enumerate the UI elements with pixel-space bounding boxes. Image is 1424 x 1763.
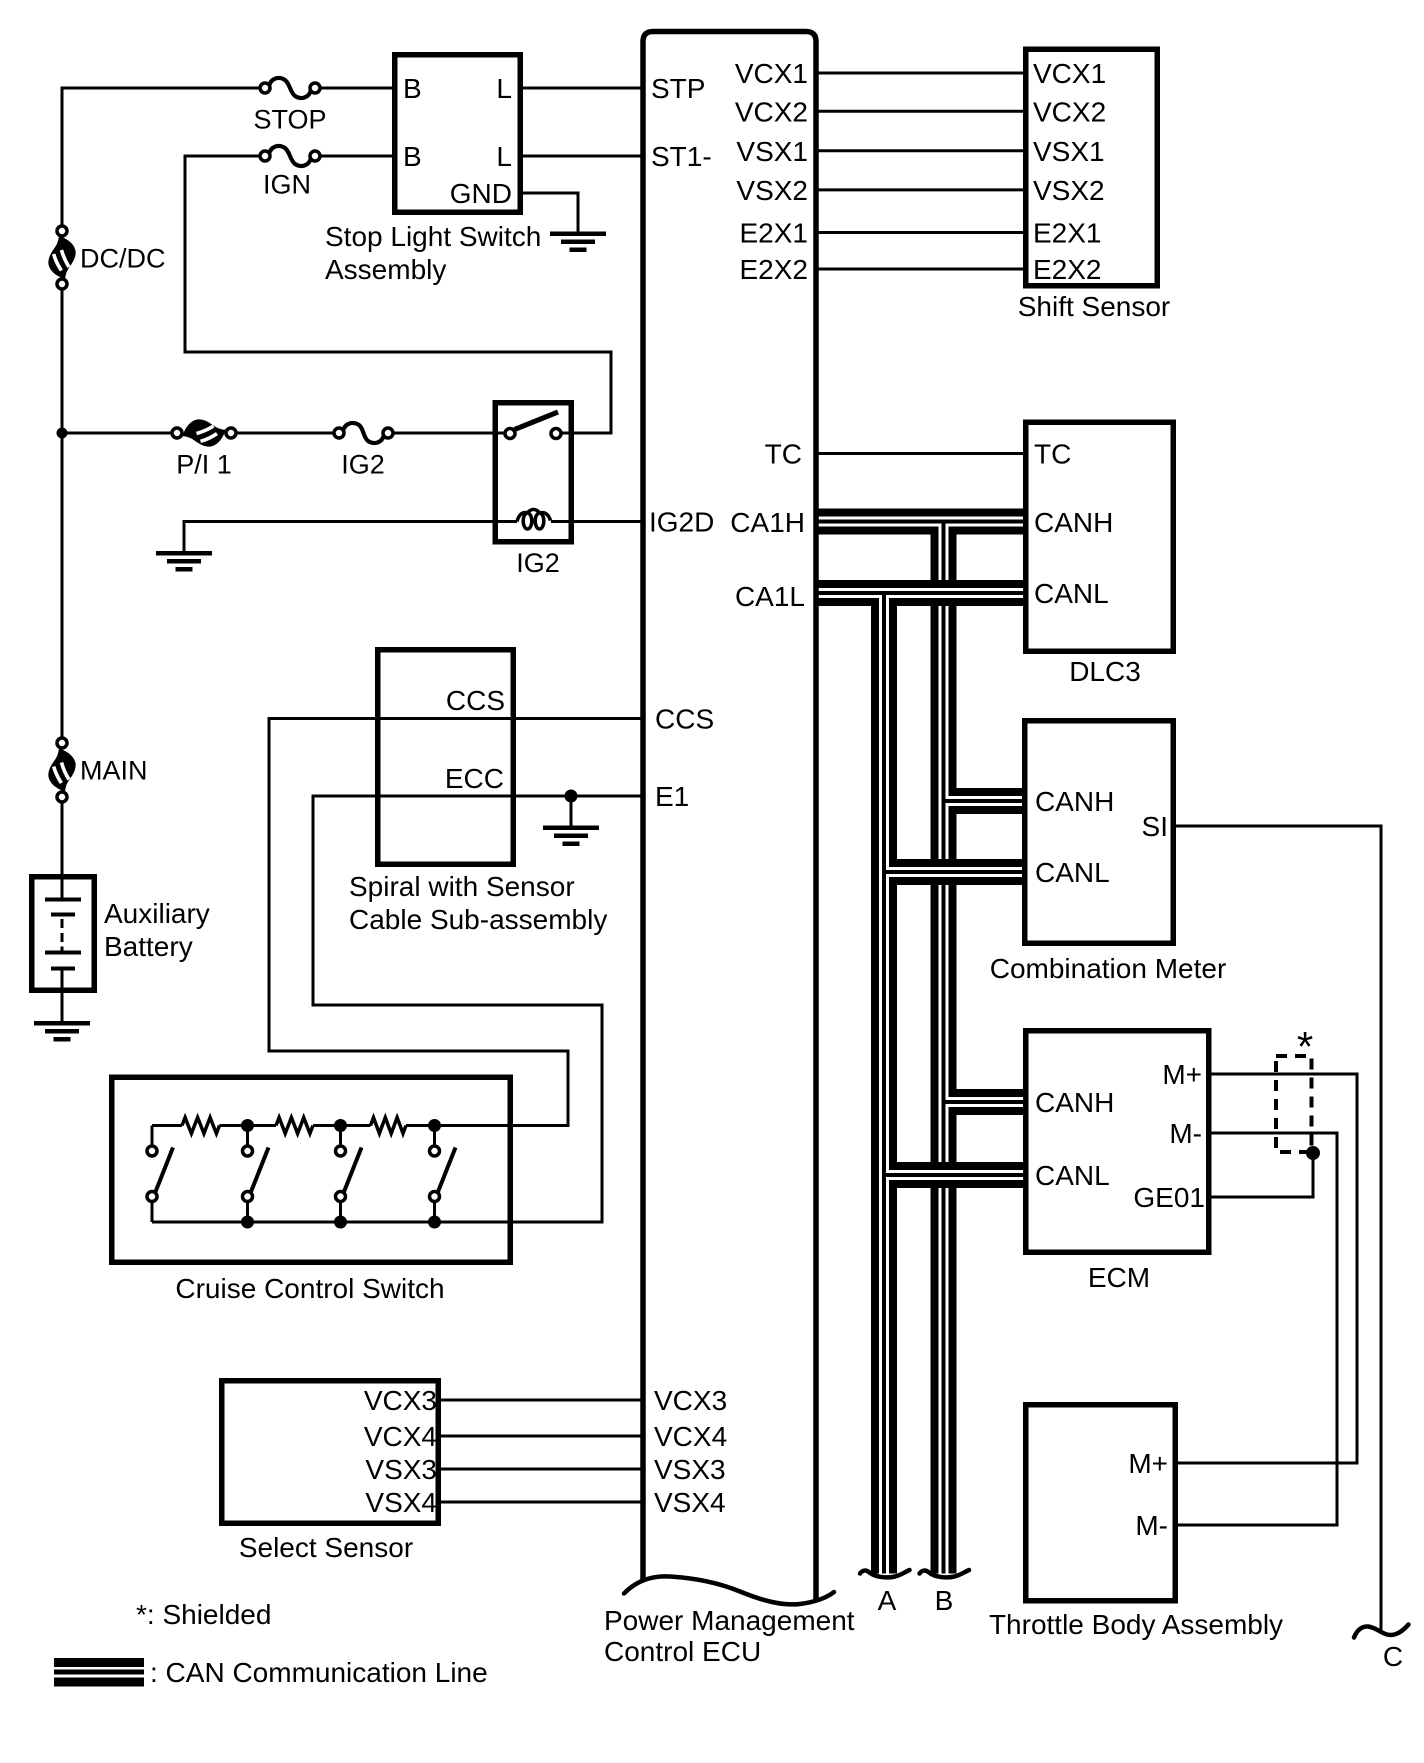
ECU bottom break wave xyxy=(624,1576,834,1604)
svg-text:TC: TC xyxy=(765,439,802,470)
fusible link MAIN xyxy=(48,749,75,792)
svg-text:E2X1: E2X1 xyxy=(740,218,809,249)
svg-text:IGN: IGN xyxy=(263,170,311,200)
wire: L to STP xyxy=(523,87,641,90)
junction node on battery bus xyxy=(57,428,68,439)
svg-text:E1: E1 xyxy=(655,781,689,812)
select sensor box xyxy=(222,1381,439,1524)
svg-text:Select Sensor: Select Sensor xyxy=(239,1532,413,1563)
relay IG2 box xyxy=(495,403,571,542)
svg-text:E2X2: E2X2 xyxy=(740,254,809,285)
svg-text:CANH: CANH xyxy=(1035,1087,1114,1118)
cruise control switch box xyxy=(112,1077,511,1262)
svg-text:VCX2: VCX2 xyxy=(735,97,808,128)
svg-text:VSX3: VSX3 xyxy=(365,1454,437,1485)
svg-text:B: B xyxy=(403,73,422,104)
top resistor row wire xyxy=(152,1124,182,1127)
svg-text:VSX2: VSX2 xyxy=(736,175,808,206)
ground (relay coil) xyxy=(156,551,212,556)
svg-text:C: C xyxy=(1383,1641,1403,1672)
switch 2 of cruise control xyxy=(246,1126,249,1147)
svg-text:IG2D: IG2D xyxy=(649,507,714,538)
svg-text:VCX4: VCX4 xyxy=(654,1421,727,1452)
wire: E1 row xyxy=(312,795,642,798)
svg-text:VCX1: VCX1 xyxy=(1033,58,1106,89)
svg-text:CCS: CCS xyxy=(655,704,714,735)
nodes on top row xyxy=(241,1119,254,1132)
svg-text:STOP: STOP xyxy=(253,105,326,135)
switch 3 of cruise control xyxy=(339,1126,342,1147)
svg-text:*: * xyxy=(1297,1023,1313,1070)
svg-text:Cable Sub-assembly: Cable Sub-assembly xyxy=(349,904,607,935)
wire: GND to ground xyxy=(523,192,578,195)
svg-text:CANL: CANL xyxy=(1034,578,1109,609)
svg-text:Power Management: Power Management xyxy=(604,1605,855,1636)
wire: left battery bus vertical xyxy=(61,87,64,228)
stop light switch assembly box xyxy=(395,55,521,213)
svg-text:VSX4: VSX4 xyxy=(365,1487,437,1518)
svg-text:Shift Sensor: Shift Sensor xyxy=(1018,291,1171,322)
wire: GE01 to shield xyxy=(1212,1196,1315,1199)
DLC3 box xyxy=(1026,422,1174,651)
relay coil xyxy=(517,513,527,522)
wire: TC to DLC3 xyxy=(818,452,1023,455)
svg-text:GND: GND xyxy=(450,178,512,209)
wire: IGN branch down to relay xyxy=(184,155,187,354)
svg-text:VSX2: VSX2 xyxy=(1033,175,1105,206)
spiral cable box xyxy=(378,650,514,865)
svg-text:Cruise Control Switch: Cruise Control Switch xyxy=(175,1273,444,1304)
svg-text:Throttle Body Assembly: Throttle Body Assembly xyxy=(989,1609,1283,1640)
svg-text:L: L xyxy=(496,141,512,172)
svg-text:B: B xyxy=(403,141,422,172)
battery cell plates xyxy=(61,871,64,899)
ground (battery) xyxy=(34,1021,90,1026)
relay switch contacts and blade xyxy=(505,429,515,439)
svg-text:VCX1: VCX1 xyxy=(735,58,808,89)
svg-text:ECM: ECM xyxy=(1088,1262,1150,1293)
resistor 1 xyxy=(182,1118,220,1134)
junction slits: trunk B off CA1H xyxy=(939,526,942,535)
svg-text:B: B xyxy=(935,1585,954,1616)
svg-text:CANH: CANH xyxy=(1034,507,1113,538)
svg-text:DLC3: DLC3 xyxy=(1069,656,1141,687)
ground (E1) xyxy=(543,826,599,831)
svg-text:CANL: CANL xyxy=(1035,857,1110,888)
wire: CCS down-around to cruise switch top row xyxy=(268,717,271,1053)
wire: coil right to ECU IG2D xyxy=(551,520,641,523)
svg-text:Combination Meter: Combination Meter xyxy=(990,953,1227,984)
wire: E1 down-around to cruise switch bottom row xyxy=(312,795,315,1007)
CAN trunk A (vertical) xyxy=(871,585,879,1574)
break squiggle B xyxy=(920,1570,970,1577)
wires: select sensor to ECU xyxy=(441,1399,641,1402)
svg-text:CA1H: CA1H xyxy=(730,507,805,538)
wire: IGN fuse feed xyxy=(185,155,261,158)
wire between P/I 1 and IG2 fuse xyxy=(235,432,335,435)
svg-text:M+: M+ xyxy=(1162,1059,1202,1090)
svg-text:STP: STP xyxy=(651,73,705,104)
fuse STOP xyxy=(269,78,311,98)
svg-text:CCS: CCS xyxy=(446,685,505,716)
fuse IG2 xyxy=(343,423,384,443)
shift sensor box xyxy=(1026,49,1158,286)
wire: battery bus to relay contact row xyxy=(62,432,173,435)
nodes on bottom row xyxy=(241,1216,254,1229)
shield dashed box xyxy=(1276,1056,1312,1152)
wire: E1 to ground xyxy=(570,796,573,827)
svg-text:: CAN Communication Line: : CAN Communication Line xyxy=(150,1657,488,1688)
wire: CCS row xyxy=(268,717,642,720)
wire: ECM M+ to throttle body M+ xyxy=(1212,1073,1359,1076)
svg-text:VSX1: VSX1 xyxy=(1033,136,1105,167)
svg-text:A: A xyxy=(878,1585,897,1616)
wires: ECU to shift sensor xyxy=(818,72,1023,75)
svg-text:Control ECU: Control ECU xyxy=(604,1636,761,1667)
svg-text:CANH: CANH xyxy=(1035,786,1114,817)
wire: stop fuse feed from battery bus xyxy=(62,87,261,90)
svg-text:CA1L: CA1L xyxy=(735,581,805,612)
fusible link P/I 1 xyxy=(183,419,226,446)
svg-text:Battery: Battery xyxy=(104,931,193,962)
resistor 3 xyxy=(371,1118,407,1134)
wire: SI to C xyxy=(1176,825,1383,828)
svg-text:IG2: IG2 xyxy=(516,548,560,578)
svg-text:DC/DC: DC/DC xyxy=(80,244,166,274)
svg-text:SI: SI xyxy=(1142,811,1168,842)
CAN bundle CA1H to DLC3 CANH xyxy=(818,509,1023,535)
CAN branch to ECM CANH xyxy=(949,1089,1024,1115)
svg-text:VCX2: VCX2 xyxy=(1033,96,1106,127)
svg-text:P/I 1: P/I 1 xyxy=(176,450,232,480)
ground (stop light switch) xyxy=(550,232,606,237)
bottom row wire xyxy=(152,1221,602,1224)
junction slits: trunk A off CA1L xyxy=(879,598,882,607)
svg-text:*: Shielded: *: Shielded xyxy=(136,1599,271,1630)
throttle body assembly box xyxy=(1026,1405,1176,1601)
CAN trunk B (vertical) xyxy=(931,515,939,1574)
svg-text:Stop Light Switch: Stop Light Switch xyxy=(325,221,541,252)
svg-text:Spiral with Sensor: Spiral with Sensor xyxy=(349,871,575,902)
CAN bundle CA1L to DLC3 CANL xyxy=(818,580,1023,606)
svg-text:E2X2: E2X2 xyxy=(1033,254,1102,285)
svg-text:Auxiliary: Auxiliary xyxy=(104,898,210,929)
junction node on E1 wire xyxy=(565,790,578,803)
svg-text:VSX3: VSX3 xyxy=(654,1454,726,1485)
resistor 2 xyxy=(276,1118,313,1134)
svg-text:VCX3: VCX3 xyxy=(654,1385,727,1416)
svg-text:M+: M+ xyxy=(1128,1448,1168,1479)
svg-text:E2X1: E2X1 xyxy=(1033,218,1102,249)
wire into relay switch contact xyxy=(392,432,504,435)
fusible link DC/DC xyxy=(48,236,75,279)
break squiggle A xyxy=(860,1570,910,1577)
combination meter box xyxy=(1025,721,1174,944)
svg-text:Assembly: Assembly xyxy=(325,254,446,285)
break squiggle C xyxy=(1354,1625,1409,1638)
CAN branch to ECM CANL xyxy=(889,1162,1023,1188)
wire: coil left to ground xyxy=(184,520,517,523)
svg-text:VSX4: VSX4 xyxy=(654,1487,726,1518)
ECM box xyxy=(1026,1031,1209,1253)
svg-text:L: L xyxy=(496,73,512,104)
auxiliary battery box xyxy=(32,877,95,991)
power management control ECU box (broken bottom) xyxy=(643,32,816,1602)
svg-text:TC: TC xyxy=(1034,439,1071,470)
wire: ECM M- to throttle body M- xyxy=(1212,1132,1339,1135)
legend: CAN communication line symbol xyxy=(54,1658,144,1667)
svg-text:ST1-: ST1- xyxy=(651,141,712,172)
svg-text:GE01: GE01 xyxy=(1133,1182,1205,1213)
svg-text:VSX1: VSX1 xyxy=(736,136,808,167)
CAN branch to combination meter CANL xyxy=(889,859,1022,885)
svg-text:M-: M- xyxy=(1135,1510,1168,1541)
wire: relay contact to IGN branch xyxy=(562,432,613,435)
svg-text:MAIN: MAIN xyxy=(80,756,148,786)
switch 1 of cruise control xyxy=(151,1126,154,1147)
svg-text:IG2: IG2 xyxy=(341,450,385,480)
fuse IGN xyxy=(269,146,311,166)
shield junction dot xyxy=(1306,1146,1320,1160)
svg-text:CANL: CANL xyxy=(1035,1160,1110,1191)
svg-text:VCX4: VCX4 xyxy=(364,1421,437,1452)
svg-text:VCX3: VCX3 xyxy=(364,1385,437,1416)
svg-text:M-: M- xyxy=(1169,1118,1202,1149)
wire: L to ST1- xyxy=(523,155,641,158)
switch 4 of cruise control xyxy=(433,1126,436,1147)
CAN branch to combination meter CANH xyxy=(949,788,1023,814)
svg-text:ECC: ECC xyxy=(445,763,504,794)
